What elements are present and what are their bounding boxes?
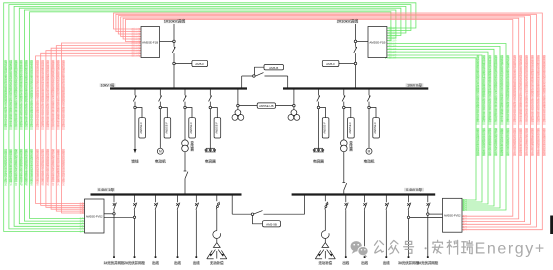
relay U11 AM5SE-F — [320, 108, 329, 139]
svg-text:装置在线状态实时监测与告警: 装置在线状态实时监测与告警 — [30, 148, 33, 186]
wire bus-tie top right segment — [265, 75, 288, 77]
wire green GR4 (2#10kV relay to 2#PV box) — [385, 51, 488, 205]
net label strip red L11 — [57, 59, 60, 186]
wire U4 to N4 — [339, 63, 354, 65]
svg-text:电容器回路投切状态及故障信号上传至云平台主机显示: 电容器回路投切状态及故障信号上传至云平台主机显示 — [52, 59, 55, 127]
wire red RL6 (1#10kV relay to 1#PV box) — [62, 42, 142, 214]
wire T1 to disconnector — [184, 152, 186, 171]
wire QS4 to 0.4kV bus I — [184, 179, 186, 195]
bus 0.4kV II母 — [292, 193, 436, 195]
svg-text:变压器温控器超温告警信号经网关上传至云平台主机端: 变压器温控器超温告警信号经网关上传至云平台主机端 — [20, 59, 23, 127]
svg-text:故障录波数据召唤上传: 故障录波数据召唤上传 — [531, 127, 534, 156]
load label 出线 — [361, 261, 368, 264]
svg-text:AM5SE-F: AM5SE-F — [165, 122, 169, 134]
svg-text:电动机保护装置遥信遥测数据经网关上传至云平台主机: 电动机保护装置遥信遥测数据经网关上传至云平台主机 — [4, 59, 7, 127]
svg-text:AM5SE-UB: AM5SE-UB — [259, 104, 273, 108]
disconnector QS2 — [354, 43, 357, 63]
net label strip green R6 — [476, 54, 479, 156]
breaker QF7 (10kV feeder) — [367, 89, 370, 107]
svg-text:电容器回路投切状态及故障信号上传至云平台主机显示: 电容器回路投切状态及故障信号上传至云平台主机显示 — [525, 54, 528, 122]
svg-text:线路保护装置动作及告警信号上传至变电所运维云平台: 线路保护装置动作及告警信号上传至变电所运维云平台 — [500, 54, 503, 122]
breaker QF10 (0.4kV feeder) — [133, 195, 137, 211]
svg-text:电动机: 电动机 — [155, 159, 166, 164]
node N3 — [354, 40, 357, 43]
breaker QF12 (0.4kV feeder) — [176, 195, 180, 211]
signal tags at U3 (green) — [389, 26, 397, 60]
svg-text:保护动作事件记录上传: 保护动作事件记录上传 — [525, 127, 528, 156]
net label strip green L3 — [15, 59, 18, 186]
net label strip green L1 — [4, 59, 7, 186]
watermark text 公众号 · 安科瑞Energy+ (custom glyphs) — [375, 240, 473, 254]
net label strip red R12 — [513, 54, 516, 156]
breaker QF13 (0.4kV feeder) — [195, 195, 199, 211]
bus label 0.4kV II母 — [404, 188, 424, 192]
svg-text:就地声光报警信号实时上传至: 就地声光报警信号实时上传至 — [4, 148, 7, 186]
label 变压器 1 — [191, 141, 194, 151]
svg-text:故障录波数据召唤上传至主站: 故障录波数据召唤上传至主站 — [20, 148, 23, 186]
breaker QF8 (0.4kV tie) — [254, 211, 263, 214]
wire bus-tie top left segment — [242, 75, 253, 77]
wire N6 to U6 — [239, 105, 257, 107]
wire U14 link — [253, 215, 263, 223]
svg-text:保护动作事件记录上传至平台: 保护动作事件记录上传至平台 — [52, 148, 55, 186]
svg-text:10kV I母: 10kV I母 — [101, 83, 115, 87]
wire red R3 (1#10kV relay to 2#PV box) — [118, 16, 530, 226]
wire U6 to N7 — [276, 105, 293, 107]
terminal dot — [155, 256, 157, 258]
svg-text:线路保护装置动作及告警信号上传至变电所运维云平台: 线路保护装置动作及告警信号上传至变电所运维云平台 — [519, 54, 522, 122]
wire red RL5 (1#10kV relay to 1#PV box) — [56, 45, 141, 212]
wire green GR5 (2#10kV relay to 2#PV box) — [385, 54, 482, 203]
svg-text:运维平台短信告警推送: 运维平台短信告警推送 — [500, 127, 503, 156]
breaker QF4 (10kV feeder) — [209, 89, 212, 107]
svg-text:AM5SE-F1B: AM5SE-F1B — [142, 41, 158, 45]
relay U16 AM5SE-PV52 — [443, 198, 463, 232]
motor M1 — [157, 148, 163, 154]
svg-text:遥控分合闸指令下发至: 遥控分合闸指令下发至 — [482, 127, 485, 156]
svg-text:出线: 出线 — [342, 260, 349, 265]
net label strip green L6 — [30, 59, 33, 186]
wire N10 to U15 — [104, 216, 133, 218]
svg-text:出线: 出线 — [383, 260, 390, 265]
label 变压器 2 — [349, 141, 352, 151]
meter U2 AM5-F — [192, 60, 208, 66]
svg-text:AM5SE-F: AM5SE-F — [373, 122, 377, 134]
disconnector QS5 — [342, 183, 346, 191]
node N1 — [173, 40, 176, 43]
net label strip green L2 — [9, 59, 12, 186]
svg-text:1#10kV进线: 1#10kV进线 — [164, 18, 186, 24]
wire incoming 1 to bus I — [173, 65, 175, 89]
node N4 — [354, 62, 357, 65]
svg-text:电容器回路投切状态及故障信号上传至云平台主机显示: 电容器回路投切状态及故障信号上传至云平台主机显示 — [494, 54, 497, 122]
svg-text:M: M — [159, 150, 162, 154]
svg-text:遥控分合闸指令下发至装置端: 遥控分合闸指令下发至装置端 — [41, 148, 44, 186]
net label strip red R7 — [543, 54, 546, 156]
load label 电动机 — [364, 160, 375, 164]
terminal dot — [408, 256, 410, 258]
meter U14 AM5-9B — [263, 221, 281, 227]
signal tags at U16 — [463, 198, 467, 232]
svg-text:母联备自投装置动作信号经网关上传至运维云平台主机: 母联备自投装置动作信号经网关上传至运维云平台主机 — [36, 59, 39, 127]
wire feeder QF7 down — [368, 109, 370, 149]
load label 出线 — [342, 261, 349, 264]
breaker QF18 (0.4kV feeder) — [427, 195, 431, 211]
SVG compensator device (无功补偿) — [207, 243, 227, 259]
signal tags at U1 (red) — [131, 27, 139, 58]
wire 0.4kV feeder 出线 — [345, 210, 347, 256]
wire N2 to U2 — [175, 63, 192, 65]
wire N9 to U15 — [104, 213, 113, 215]
svg-text:保护动作事件记录上传至平台: 保护动作事件记录上传至平台 — [15, 148, 18, 186]
load label 馈线 — [131, 160, 138, 164]
wire feeder QF1 down — [134, 109, 136, 149]
wire 0.4kV feeder 出线 — [177, 210, 179, 256]
svg-text:电动机保护装置遥信遥测数据经网关上传至云平台主机: 电动机保护装置遥信遥测数据经网关上传至云平台主机 — [62, 59, 65, 127]
load label 出线 — [383, 261, 390, 264]
disconnector QS4 — [184, 171, 188, 179]
wire green GR2 (2#10kV relay to 2#PV box) — [385, 45, 500, 209]
bus 10kV II母 — [283, 87, 428, 89]
breaker QF5 (10kV feeder) — [317, 89, 320, 107]
watermark WeChat icon — [351, 241, 369, 257]
net label strip green L4 — [20, 59, 23, 186]
wire feeder QF3 down — [184, 109, 186, 140]
svg-text:变压器温控器超温告警信号经网关上传至云平台主机端: 变压器温控器超温告警信号经网关上传至云平台主机端 — [531, 54, 534, 122]
wire red RL1 (1#10kV relay to 1#PV box) — [36, 55, 141, 205]
node N11 (4#PV CT) — [427, 213, 429, 215]
net label strip red L10 — [52, 59, 55, 186]
svg-text:0.4kV II母: 0.4kV II母 — [406, 188, 422, 192]
svg-text:出线: 出线 — [152, 260, 159, 265]
breaker QF15 (0.4kV feeder) — [363, 195, 367, 211]
relay U7 AM5SE-F — [136, 108, 145, 139]
reactor L2 (hook) — [321, 231, 329, 239]
capacitor C1 bank — [205, 148, 216, 152]
wire 0.4kV feeder 1#光伏并网柜 — [113, 210, 115, 256]
meter U6 AM5SE-UB — [257, 103, 275, 108]
wire feeder QF6 down — [343, 109, 345, 140]
load label 无功补偿 — [210, 261, 224, 264]
wire green GR1 (2#10kV relay to 2#PV box) — [385, 43, 506, 211]
wire red R6 (1#10kV relay to 2#PV box) — [126, 20, 513, 218]
svg-text:2#光伏并网柜: 2#光伏并网柜 — [124, 260, 145, 265]
wire feeder QF5 down — [318, 109, 320, 149]
wire U5 link — [255, 67, 265, 75]
wire QS5 to 0.4kV bus II — [343, 190, 345, 194]
node at feeder QF6 — [343, 106, 346, 109]
svg-text:AM5-F: AM5-F — [195, 62, 204, 66]
svg-text:装置在线状态实时监测: 装置在线状态实时监测 — [476, 127, 479, 156]
relay U3 AM5SE-F1B — [368, 27, 387, 58]
wire lower tie horizontal left — [232, 213, 251, 215]
wire red R1 (1#10kV relay to 2#PV box) — [114, 13, 543, 231]
wire green G1 (2#10kV relay to 1#PV box) — [4, 3, 416, 233]
load label 出线 — [174, 261, 181, 264]
svg-text:电容器: 电容器 — [205, 159, 216, 164]
PT TV2 (3-winding voltage transformer) — [288, 107, 300, 120]
fuse-switch FU2 (无功补偿) — [325, 195, 328, 210]
relay U15 AM5SE-PV52 — [85, 199, 105, 233]
relay U10 AM5SE-F — [212, 108, 221, 139]
node N2 — [173, 62, 176, 65]
svg-text:电容器: 电容器 — [313, 159, 324, 164]
node N8 — [251, 213, 254, 216]
net label strip red L8 — [41, 59, 44, 186]
svg-text:AM5SE-F: AM5SE-F — [323, 122, 327, 134]
wire feeder QF4 down — [209, 109, 211, 149]
node N6 — [237, 104, 240, 107]
net label strip red R10 — [525, 54, 528, 156]
svg-text:AM5SE-F: AM5SE-F — [189, 122, 193, 134]
PT TV1 (3-winding voltage transformer) — [232, 107, 244, 120]
signal tags at U15 — [80, 201, 84, 233]
SVG compensator device (无功补偿) — [315, 243, 335, 259]
svg-text:电动机保护装置遥信遥测数据经网关上传至云平台主机: 电动机保护装置遥信遥测数据经网关上传至云平台主机 — [506, 54, 509, 122]
svg-text:母联备自投装置动作信号经网关上传至运维云平台主机: 母联备自投装置动作信号经网关上传至运维云平台主机 — [476, 54, 479, 122]
load label 1#光伏并网柜 — [104, 261, 125, 264]
net label strip red L12 — [62, 59, 65, 186]
wire T2 to disconnector — [343, 152, 345, 183]
terminal dot — [427, 256, 429, 258]
wire FU2 down — [324, 209, 326, 230]
wire incoming line 2 — [355, 24, 357, 40]
svg-text:Energy+: Energy+ — [475, 241, 546, 258]
wire red RL4 (1#10kV relay to 1#PV box) — [51, 47, 141, 210]
scrollbar fragment at right edge — [550, 216, 553, 235]
breaker QF11 (0.4kV feeder) — [154, 195, 158, 211]
svg-text:故障录波数据召唤上传至主站: 故障录波数据召唤上传至主站 — [46, 148, 49, 186]
disconnector QS1 — [172, 43, 175, 63]
svg-text:出线: 出线 — [193, 260, 200, 265]
load label 电容器 — [313, 160, 324, 164]
wire FU1 down — [216, 209, 218, 230]
net label strip red R8 — [537, 54, 540, 156]
svg-text:电动机: 电动机 — [364, 159, 375, 164]
wire bus-tie riser right — [287, 76, 289, 89]
reactor L1 (hook) — [213, 231, 221, 239]
wire lower tie drop left — [231, 195, 233, 215]
wire 0.4kV feeder 3#光伏并网柜 — [408, 210, 410, 256]
svg-text:AM5SE-PV52: AM5SE-PV52 — [444, 214, 461, 218]
svg-text:3#光伏并网柜: 3#光伏并网柜 — [398, 260, 419, 265]
svg-text:AM5-9B: AM5-9B — [266, 223, 277, 227]
svg-text:AM5SE-F1B: AM5SE-F1B — [369, 41, 385, 45]
svg-text:线路保护装置动作及告警信号上传至变电所运维云平台: 线路保护装置动作及告警信号上传至变电所运维云平台 — [9, 59, 12, 127]
wire red RL3 (1#10kV relay to 1#PV box) — [46, 50, 141, 209]
wire 0.4kV feeder 出线 — [385, 210, 387, 256]
svg-text:进线回路电流电压功率等遥测数据上传至云平台主机内: 进线回路电流电压功率等遥测数据上传至云平台主机内 — [537, 54, 540, 122]
node N7 — [293, 104, 296, 107]
meter U5 AM5-B — [264, 65, 284, 70]
wire green G5 (2#10kV relay to 1#PV box) — [24, 10, 396, 222]
node N10 (2#PV CT) — [133, 216, 135, 218]
node at feeder QF1 — [134, 106, 137, 109]
wire green GR6 (2#10kV relay to 2#PV box) — [385, 57, 476, 201]
bus label 0.4kV 1母 — [97, 188, 115, 192]
svg-text:馈线: 馈线 — [131, 159, 139, 164]
svg-text:运维平台短信告警推送及确认: 运维平台短信告警推送及确认 — [57, 148, 60, 186]
svg-text:10kV II母: 10kV II母 — [407, 83, 422, 87]
svg-text:2#10kV进线: 2#10kV进线 — [337, 18, 359, 24]
svg-text:0.4kV 1母: 0.4kV 1母 — [98, 188, 114, 192]
load label 出线 — [193, 261, 200, 264]
svg-text:运维平台短信告警推送: 运维平台短信告警推送 — [519, 127, 522, 156]
relay U9 AM5SE-F — [186, 108, 195, 139]
svg-text:母联备自投装置动作信号经网关上传至运维云平台主机: 母联备自投装置动作信号经网关上传至运维云平台主机 — [543, 54, 546, 122]
node N12 (3#PV CT) — [407, 216, 409, 218]
load label 电容器 — [205, 160, 216, 164]
svg-text:装置在线状态实时监测与告警: 装置在线状态实时监测与告警 — [36, 148, 39, 186]
fuse-switch FU1 (无功补偿) — [216, 195, 219, 210]
wire green G4 (2#10kV relay to 1#PV box) — [19, 8, 401, 224]
breaker QF1 (10kV feeder) — [133, 89, 136, 107]
svg-text:进线回路电流电压功率等遥测数据上传至云平台主机内: 进线回路电流电压功率等遥测数据上传至云平台主机内 — [482, 54, 485, 122]
bus label 10kV I母 — [100, 83, 116, 87]
wire green GR3 (2#10kV relay to 2#PV box) — [385, 48, 494, 207]
svg-text:运维平台短信告警推送及确认: 运维平台短信告警推送及确认 — [9, 148, 12, 186]
wire N3 to U3 — [357, 40, 368, 42]
load label 4#光伏并网柜 — [417, 261, 438, 264]
net label strip green R4 — [488, 54, 491, 156]
wire red R4 (1#10kV relay to 2#PV box) — [121, 17, 525, 223]
wire incoming 2 to bus II — [355, 65, 357, 89]
bus 0.4kV 1母 — [91, 193, 242, 195]
node at feeder QF7 — [368, 106, 371, 109]
wire green G2 (2#10kV relay to 1#PV box) — [9, 5, 411, 230]
wire lower tie horizontal right — [264, 213, 305, 215]
wire 0.4kV feeder 4#光伏并网柜 — [427, 210, 429, 256]
terminal dot — [385, 256, 387, 258]
net label strip green R3 — [494, 54, 497, 156]
wire 0.4kV feeder 出线 — [195, 210, 197, 256]
svg-text:变压器温控器超温告警信号经网关上传至云平台主机端: 变压器温控器超温告警信号经网关上传至云平台主机端 — [46, 59, 49, 127]
wire bus-tie riser left — [241, 76, 243, 89]
terminal dot — [364, 256, 366, 258]
wire lower tie riser right — [304, 195, 306, 215]
svg-text:电动机保护装置遥信遥测数据经网关上传至云平台主机: 电动机保护装置遥信遥测数据经网关上传至云平台主机 — [513, 54, 516, 122]
motor M2 — [366, 148, 372, 154]
relay U1 AM5SE-F1B — [141, 27, 160, 58]
node at feeder QF2 — [159, 106, 162, 109]
node at feeder QF5 — [317, 106, 320, 109]
load arrow (馈线) — [134, 149, 137, 153]
load label 出线 — [152, 261, 159, 264]
svg-text:就地声光报警信号上传: 就地声光报警信号上传 — [513, 127, 516, 156]
breaker QF14 (0.4kV feeder) — [345, 195, 349, 211]
svg-text:AM5-F: AM5-F — [326, 62, 335, 66]
node at feeder QF3 — [184, 106, 187, 109]
wire bus to PT TV1 — [237, 89, 239, 105]
net label strip green L5 — [25, 59, 28, 186]
svg-text:进线回路电流电压功率等遥测数据上传至云平台主机内: 进线回路电流电压功率等遥测数据上传至云平台主机内 — [25, 59, 28, 127]
wire green G3 (2#10kV relay to 1#PV box) — [14, 6, 406, 227]
svg-text:遥控分合闸指令下发至: 遥控分合闸指令下发至 — [537, 127, 540, 156]
svg-text:进线回路电流电压功率等遥测数据上传至云平台主机内: 进线回路电流电压功率等遥测数据上传至云平台主机内 — [41, 59, 44, 127]
svg-text:4#光伏并网柜: 4#光伏并网柜 — [417, 260, 438, 265]
wire incoming line 1 — [173, 24, 175, 40]
svg-text:AM5SE-F: AM5SE-F — [348, 122, 352, 134]
relay U12 AM5SE-F — [345, 108, 354, 139]
load label 电动机 — [155, 160, 166, 164]
net label strip red R9 — [531, 54, 534, 156]
wire green G6 (2#10kV relay to 1#PV box) — [30, 12, 391, 220]
terminal dot — [177, 256, 179, 258]
svg-text:AM5-B: AM5-B — [269, 66, 278, 70]
svg-text:线路保护装置动作及告警信号上传至变电所运维云平台: 线路保护装置动作及告警信号上传至变电所运维云平台 — [57, 59, 60, 127]
relay U8 AM5SE-F — [162, 108, 171, 139]
terminal dot — [113, 256, 115, 258]
wire U1 to N1 — [160, 40, 173, 42]
net label strip green R5 — [482, 54, 485, 156]
svg-text:就地声光报警信号实时上传至: 就地声光报警信号实时上传至 — [62, 148, 65, 186]
wire 0.4kV feeder 出线 — [364, 210, 366, 256]
node N9 (1#PV CT) — [113, 213, 115, 215]
meter U4 AM5-F — [322, 60, 339, 66]
bus label 10kV II母 — [406, 83, 424, 87]
svg-text:出线: 出线 — [174, 260, 181, 265]
svg-text:AM5SE-F: AM5SE-F — [139, 122, 143, 134]
svg-text:无功补偿: 无功补偿 — [319, 260, 333, 265]
svg-text:母联备自投装置动作信号经网关上传至运维云平台主机: 母联备自投装置动作信号经网关上传至运维云平台主机 — [30, 59, 33, 127]
net label strip red L7 — [36, 59, 39, 186]
terminal dot — [195, 256, 197, 258]
wire feeder QF2 down — [159, 109, 161, 149]
svg-text:M: M — [368, 150, 371, 154]
relay U13 AM5SE-F — [370, 108, 379, 139]
breaker QF9 (0.4kV feeder) — [113, 195, 117, 211]
net label strip red L9 — [46, 59, 49, 186]
svg-text:装置在线状态实时监测: 装置在线状态实时监测 — [543, 127, 546, 156]
svg-text:AM5SE-PV52: AM5SE-PV52 — [86, 214, 103, 218]
svg-text:出线: 出线 — [361, 260, 368, 265]
wire L2 to SVG device — [324, 239, 326, 243]
wire L1 to SVG device — [216, 239, 218, 243]
wire bus to PT TV2 — [293, 89, 295, 105]
svg-text:1#光伏并网柜: 1#光伏并网柜 — [104, 260, 125, 265]
breaker QF6 (10kV feeder) — [342, 89, 345, 107]
node label 1#10kV进线 — [164, 19, 185, 23]
wire red RL2 (1#10kV relay to 1#PV box) — [41, 52, 141, 206]
capacitor C2 bank — [313, 148, 324, 152]
svg-text:保护动作事件记录上传: 保护动作事件记录上传 — [494, 127, 497, 156]
svg-text:就地声光报警信号上传: 就地声光报警信号上传 — [506, 127, 509, 156]
load label 无功补偿 — [319, 261, 333, 264]
breaker QF17 (0.4kV feeder) — [407, 195, 411, 211]
svg-text:AM5SE-F: AM5SE-F — [215, 122, 219, 134]
svg-text:遥控分合闸指令下发至装置端: 遥控分合闸指令下发至装置端 — [25, 148, 28, 186]
svg-text:变压器温控器超温告警信号经网关上传至云平台主机端: 变压器温控器超温告警信号经网关上传至云平台主机端 — [488, 54, 491, 122]
net label strip red R11 — [519, 54, 522, 156]
node at feeder QF4 — [209, 106, 212, 109]
wire 0.4kV feeder 2#光伏并网柜 — [134, 210, 136, 256]
wire red R2 (1#10kV relay to 2#PV box) — [116, 14, 537, 228]
svg-text:故障录波数据召唤上传: 故障录波数据召唤上传 — [488, 127, 491, 156]
net label strip green R1 — [506, 54, 509, 156]
transformer T2 — [341, 140, 348, 152]
breaker QF2 (10kV feeder) — [159, 89, 162, 107]
breaker QF16 (0.4kV feeder) — [385, 195, 389, 211]
wire 0.4kV feeder 出线 — [155, 210, 157, 256]
svg-text:无功补偿: 无功补偿 — [210, 260, 224, 265]
wire red R5 (1#10kV relay to 2#PV box) — [123, 18, 519, 220]
disconnector QS3 (bus tie) — [255, 73, 263, 77]
wire N12 to U16 — [410, 216, 443, 218]
wire N11 to U16 — [429, 213, 443, 215]
svg-text:电容器回路投切状态及故障信号上传至云平台主机显示: 电容器回路投切状态及故障信号上传至云平台主机显示 — [15, 59, 18, 127]
load label 3#光伏并网柜 — [398, 261, 419, 264]
terminal dot — [345, 256, 347, 258]
